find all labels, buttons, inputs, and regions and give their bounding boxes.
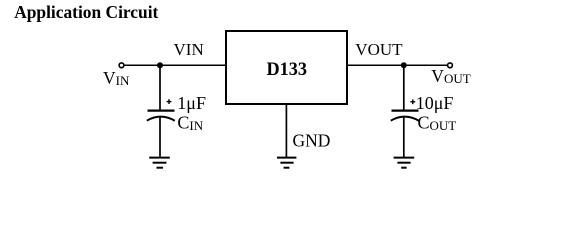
svg-text:VOUT: VOUT xyxy=(431,66,470,86)
svg-text:VIN: VIN xyxy=(103,68,130,88)
svg-text:COUT: COUT xyxy=(418,113,457,133)
svg-text:VIN: VIN xyxy=(174,40,204,59)
svg-text:VOUT: VOUT xyxy=(355,40,403,59)
svg-text:Application Circuit: Application Circuit xyxy=(14,2,158,22)
svg-text:GND: GND xyxy=(293,130,331,150)
svg-text:D133: D133 xyxy=(267,59,308,80)
svg-text:1μF: 1μF xyxy=(177,93,206,113)
svg-text:10μF: 10μF xyxy=(416,93,454,113)
svg-text:CIN: CIN xyxy=(177,113,203,133)
